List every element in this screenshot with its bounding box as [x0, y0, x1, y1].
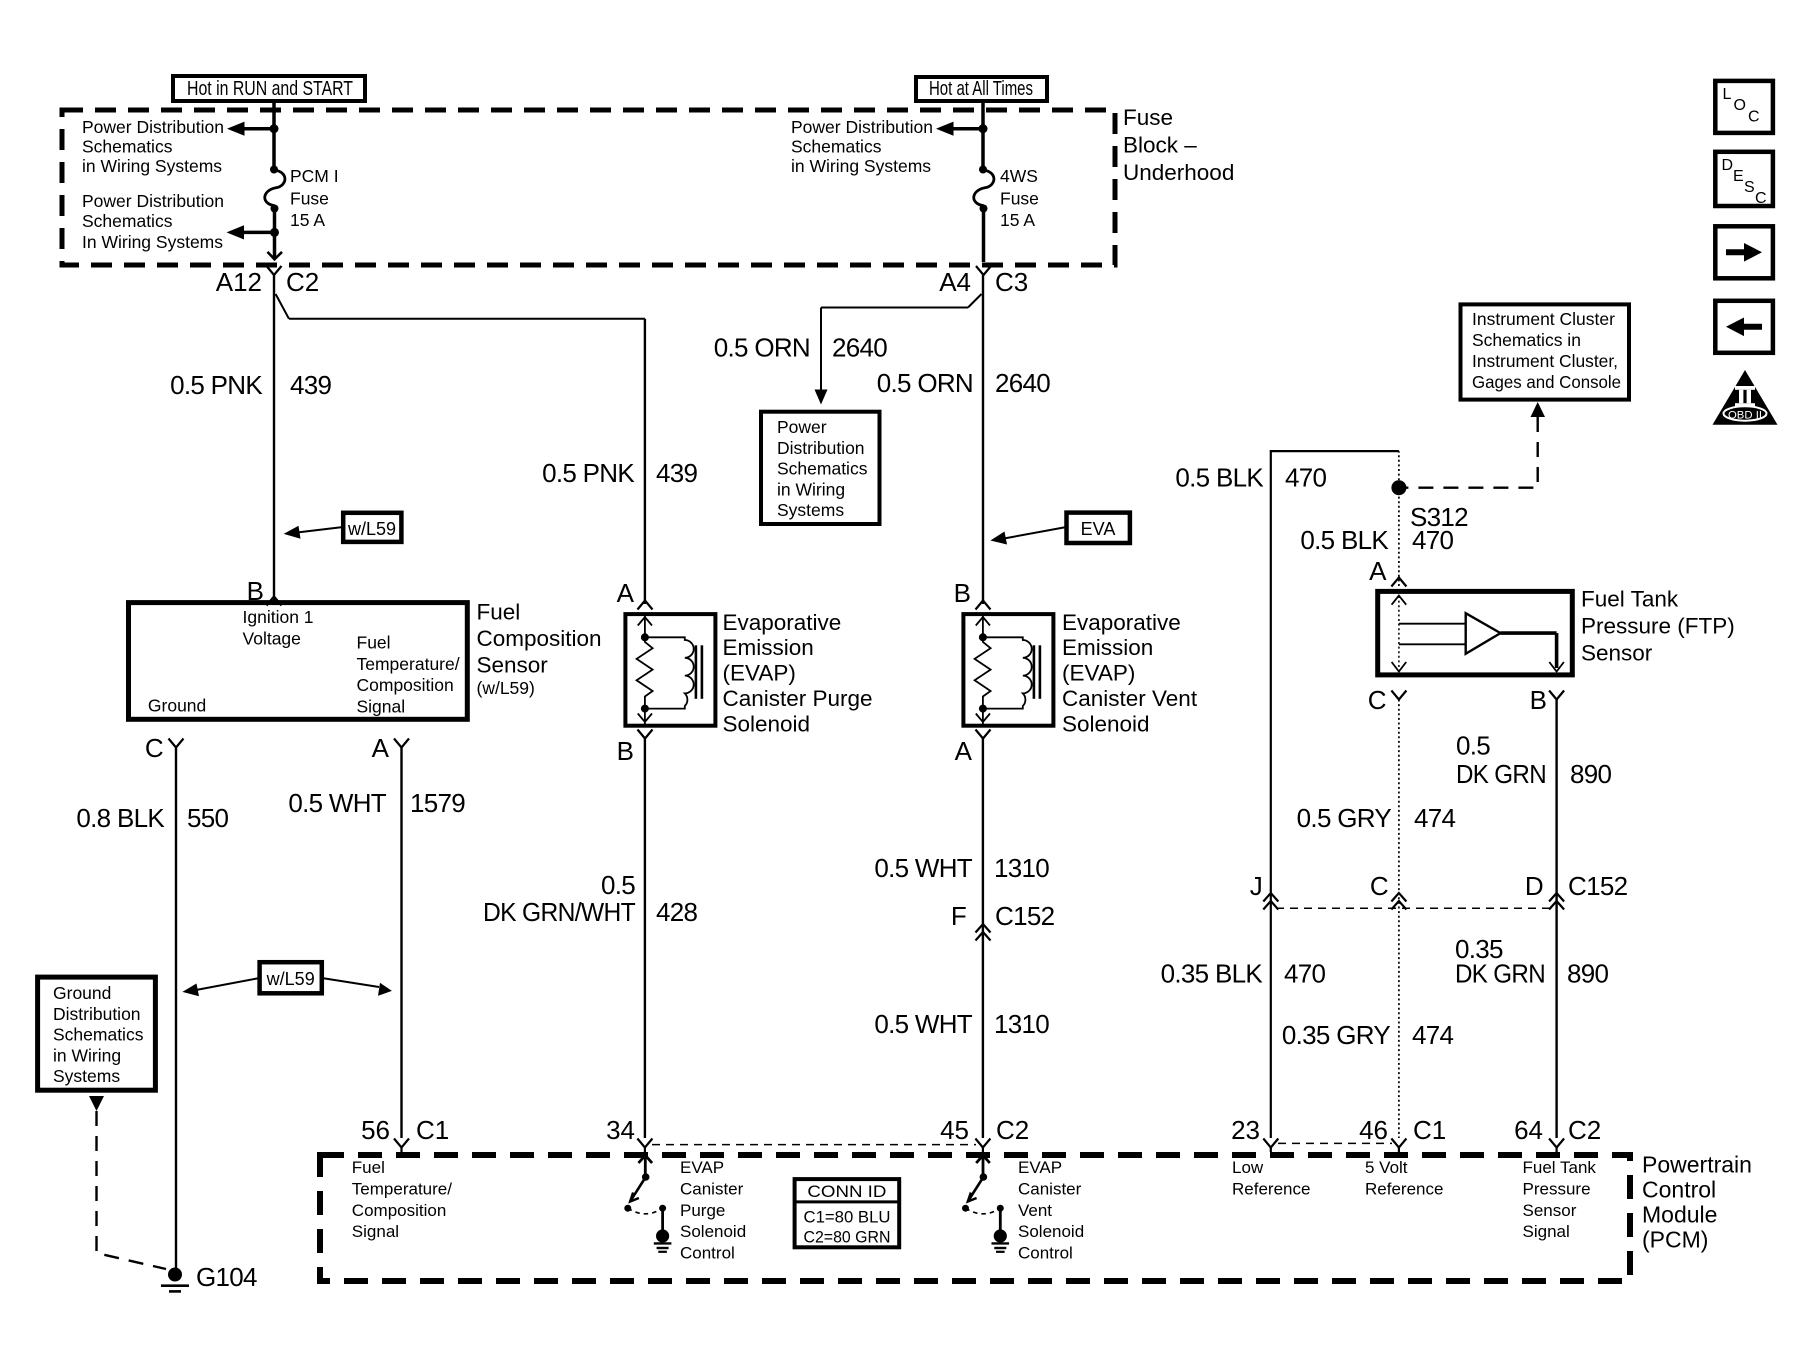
svg-text:EVA: EVA — [1081, 519, 1116, 539]
svg-text:Block –: Block – — [1123, 133, 1197, 158]
connector J C152 — [1250, 871, 1279, 910]
wire corner left to x1271 and down to pin 23 — [1271, 451, 1399, 1138]
svg-text:D: D — [1722, 157, 1734, 174]
svg-text:550: 550 — [187, 803, 229, 833]
label Fuel Temperature/Composition Signal (inside sensor) — [357, 633, 460, 717]
svg-text:0.35 GRY: 0.35 GRY — [1282, 1020, 1390, 1050]
svg-text:64: 64 — [1514, 1115, 1543, 1145]
dashed wire from S312 to instrument cluster arrow — [1403, 417, 1538, 488]
svg-text:0.5 ORN: 0.5 ORN — [877, 368, 973, 398]
label Fuel Composition Sensor (w/L59) — [477, 600, 602, 699]
svg-text:A: A — [617, 578, 635, 608]
label Low Reference — [1232, 1158, 1310, 1198]
svg-text:Control: Control — [1018, 1244, 1073, 1263]
svg-text:B: B — [954, 578, 971, 608]
icon OBD II triangle — [1713, 370, 1778, 425]
svg-text:470: 470 — [1412, 525, 1454, 555]
svg-text:Signal: Signal — [357, 696, 406, 716]
svg-text:46: 46 — [1359, 1115, 1388, 1145]
svg-text:15 A: 15 A — [1000, 210, 1035, 230]
svg-text:C: C — [1755, 190, 1767, 207]
arrow into Power Distribution box — [815, 390, 828, 405]
fuse 4WS 15A — [974, 166, 994, 213]
svg-text:Schematics: Schematics — [53, 1025, 144, 1045]
svg-text:C: C — [1748, 109, 1760, 126]
svg-text:0.5 WHT: 0.5 WHT — [288, 788, 386, 818]
svg-text:C2: C2 — [1568, 1115, 1601, 1145]
dashed link pin23 to pin46 — [1278, 1142, 1392, 1144]
svg-text:Hot in RUN and START: Hot in RUN and START — [187, 78, 353, 100]
svg-text:2640: 2640 — [832, 333, 887, 363]
svg-text:Canister Vent: Canister Vent — [1062, 686, 1198, 711]
svg-text:(PCM): (PCM) — [1642, 1227, 1708, 1253]
wire from Hot at All Times to fuse — [981, 101, 985, 170]
wire FTP A up from box to corner (dotted) — [1398, 451, 1400, 586]
label 0.8 BLK 550 — [76, 803, 228, 833]
svg-text:C1=80 BLU: C1=80 BLU — [804, 1208, 891, 1227]
label 0.5 DK GRN/WHT 428 — [483, 870, 698, 927]
svg-text:C2: C2 — [996, 1115, 1029, 1145]
wire branch vertical down to purge solenoid — [644, 319, 646, 604]
icon LOC box — [1715, 81, 1773, 133]
svg-text:A: A — [372, 733, 390, 763]
wire right main down from A4 — [982, 275, 984, 604]
svg-text:in Wiring Systems: in Wiring Systems — [791, 156, 931, 176]
arrow exiting fuse block bottom left — [268, 252, 283, 259]
svg-text:in Wiring: in Wiring — [777, 479, 845, 499]
svg-text:Canister: Canister — [680, 1179, 744, 1198]
pin C of sensor — [145, 733, 184, 763]
wire fuse to exit (right) — [982, 209, 986, 263]
wire FTP B down to PCM pin 64 — [1555, 700, 1557, 1139]
splice S312 — [1391, 480, 1468, 532]
label Power Distribution Schematics In Wiring Systems (lower left) — [82, 191, 224, 252]
label EVAP Canister Purge Solenoid Control — [680, 1158, 746, 1263]
label Fuel Tank Pressure (FTP) Sensor — [1581, 587, 1735, 666]
svg-text:474: 474 — [1414, 803, 1456, 833]
svg-text:439: 439 — [656, 458, 698, 488]
svg-text:C152: C152 — [995, 901, 1055, 931]
svg-text:in Wiring Systems: in Wiring Systems — [82, 156, 222, 176]
wire FTP C down to PCM pin 46 (dotted) — [1398, 700, 1400, 1139]
svg-text:Sensor: Sensor — [1581, 641, 1653, 666]
svg-text:Fuel Tank: Fuel Tank — [1581, 587, 1679, 612]
svg-text:Schematics: Schematics — [777, 459, 868, 479]
svg-text:Purge: Purge — [680, 1201, 725, 1220]
svg-text:0.5 BLK: 0.5 BLK — [1175, 463, 1264, 493]
svg-text:Canister Purge: Canister Purge — [723, 686, 873, 711]
svg-text:0.8 BLK: 0.8 BLK — [76, 803, 165, 833]
svg-text:Signal: Signal — [1523, 1222, 1570, 1241]
svg-text:A: A — [955, 736, 973, 766]
icon right arrow box — [1715, 226, 1773, 278]
svg-text:Low: Low — [1232, 1158, 1264, 1177]
svg-text:C2: C2 — [286, 267, 319, 297]
svg-text:Ground: Ground — [53, 983, 111, 1003]
svg-text:4WS: 4WS — [1000, 166, 1038, 186]
arrow below ground distribution box — [89, 1096, 104, 1111]
svg-text:Evaporative: Evaporative — [723, 610, 842, 635]
svg-text:DK GRN: DK GRN — [1455, 959, 1545, 989]
label 0.5 ORN 2640 (main) — [877, 368, 1051, 398]
svg-text:890: 890 — [1567, 959, 1609, 989]
svg-text:0.5: 0.5 — [1456, 731, 1490, 761]
svg-text:J: J — [1250, 871, 1262, 901]
svg-text:S: S — [1744, 179, 1755, 196]
svg-text:B: B — [617, 736, 634, 766]
wire vent A down to PCM pin 45 — [982, 739, 984, 1139]
wire A pin down to PCM pin 56 — [400, 748, 402, 1139]
svg-text:C: C — [145, 733, 164, 763]
label 5 Volt Reference — [1365, 1158, 1443, 1198]
pin A of purge solenoid — [617, 578, 653, 610]
svg-text:Sensor: Sensor — [477, 653, 549, 678]
label Power Distribution Schematics in Wiring Systems (upper left) — [82, 117, 224, 176]
svg-text:Power Distribution: Power Distribution — [82, 191, 224, 211]
svg-text:Schematics: Schematics — [82, 137, 173, 157]
svg-text:34: 34 — [606, 1115, 635, 1145]
svg-text:Module: Module — [1642, 1202, 1717, 1228]
svg-text:Power: Power — [777, 417, 827, 437]
node junction dot left lower — [270, 228, 279, 237]
label 4WS Fuse 15 A — [1000, 166, 1039, 230]
svg-text:C2=80 GRN: C2=80 GRN — [804, 1228, 891, 1247]
svg-text:Schematics: Schematics — [791, 137, 882, 157]
svg-text:45: 45 — [940, 1115, 969, 1145]
label 0.5 BLK 470 (x1399) — [1300, 525, 1453, 555]
svg-text:Composition: Composition — [477, 626, 602, 651]
svg-text:A12: A12 — [216, 267, 262, 297]
svg-text:(EVAP): (EVAP) — [1062, 661, 1135, 686]
label 0.5 PNK 439 (left wire) — [170, 370, 331, 400]
label box w/L59 (upper) — [284, 513, 402, 542]
svg-text:F: F — [951, 901, 966, 931]
node junction dot left top — [270, 124, 279, 133]
svg-text:0.35 BLK: 0.35 BLK — [1161, 959, 1264, 989]
pin A of sensor — [372, 733, 409, 763]
svg-text:439: 439 — [290, 370, 332, 400]
wire from Hot in RUN to fuse — [272, 101, 276, 170]
svg-text:Solenoid: Solenoid — [1018, 1222, 1084, 1241]
wire branch diagonal at A12 — [276, 294, 289, 319]
svg-text:Fuel: Fuel — [352, 1158, 385, 1177]
svg-text:Ground: Ground — [148, 696, 206, 716]
wire purge B down to PCM pin 34 — [644, 739, 646, 1139]
svg-text:Evaporative: Evaporative — [1062, 610, 1181, 635]
fuse block box (Fuse Block - Underhood) — [62, 110, 1115, 265]
pin B of fuel composition sensor — [247, 576, 282, 606]
EVAP canister purge solenoid — [625, 614, 715, 726]
label 0.35 GRY 474 — [1282, 1020, 1454, 1050]
svg-text:Composition: Composition — [357, 675, 454, 695]
label box w/L59 (lower, double arrow) — [182, 962, 392, 996]
svg-text:(w/L59): (w/L59) — [477, 678, 535, 698]
svg-text:1579: 1579 — [410, 788, 465, 818]
svg-text:C1: C1 — [1413, 1115, 1446, 1145]
svg-text:Canister: Canister — [1018, 1179, 1082, 1198]
pin 45 C2 — [940, 1115, 1029, 1152]
wire branch diagonal at A4 — [968, 294, 982, 308]
pin B of purge solenoid — [617, 730, 653, 767]
svg-text:Schematics in: Schematics in — [1472, 330, 1581, 350]
svg-text:EVAP: EVAP — [1018, 1158, 1062, 1177]
fuel composition sensor box — [129, 603, 468, 720]
svg-text:23: 23 — [1231, 1115, 1260, 1145]
svg-text:56: 56 — [361, 1115, 390, 1145]
svg-text:Distribution: Distribution — [777, 438, 865, 458]
svg-text:Solenoid: Solenoid — [680, 1222, 746, 1241]
svg-text:Schematics: Schematics — [82, 211, 173, 231]
label 0.5 PNK 439 (branch wire) — [542, 458, 697, 488]
pin 56 C1 — [361, 1115, 449, 1152]
svg-text:Fuel Tank: Fuel Tank — [1523, 1158, 1597, 1177]
label Fuel Tank Pressure Sensor Signal — [1523, 1158, 1597, 1241]
svg-text:DK GRN: DK GRN — [1456, 759, 1546, 789]
icon left arrow box — [1715, 301, 1773, 353]
wire arrow to Power Distribution (right) — [951, 127, 983, 131]
pin 46 C1 — [1359, 1115, 1446, 1152]
svg-text:C: C — [1368, 685, 1387, 715]
label Hot in RUN and START — [173, 76, 365, 101]
svg-text:Vent: Vent — [1018, 1201, 1052, 1220]
wire left main down from A12 — [273, 275, 275, 603]
wire C pin down to G104 — [175, 748, 177, 1272]
label Fuel Temperature/Composition Signal (PCM) — [352, 1158, 452, 1241]
wire branch horizontal to x645 — [289, 318, 645, 320]
box Instrument Cluster Schematics — [1461, 304, 1630, 399]
svg-text:5 Volt: 5 Volt — [1365, 1158, 1408, 1177]
label 0.35 BLK 470 — [1161, 959, 1326, 989]
svg-text:Reference: Reference — [1365, 1179, 1443, 1198]
svg-text:Reference: Reference — [1232, 1179, 1310, 1198]
svg-text:Emission: Emission — [1062, 635, 1153, 660]
svg-text:CONN ID: CONN ID — [807, 1182, 886, 1201]
connector A4 C3 — [939, 266, 1028, 297]
arrow up into instrument cluster box — [1531, 402, 1546, 417]
svg-text:Systems: Systems — [777, 500, 844, 520]
svg-text:0.5 WHT: 0.5 WHT — [874, 1009, 972, 1039]
svg-text:C: C — [1370, 871, 1388, 901]
svg-text:Fuse: Fuse — [1000, 189, 1039, 209]
connector D C152 — [1525, 871, 1628, 910]
svg-text:Ignition 1: Ignition 1 — [243, 607, 314, 627]
label 0.5 DK GRN 890 — [1456, 731, 1612, 790]
label Powertrain Control Module (PCM) — [1642, 1152, 1752, 1253]
icon DESC box — [1715, 152, 1773, 207]
svg-text:Systems: Systems — [53, 1066, 120, 1086]
pin 34 — [606, 1115, 652, 1152]
svg-text:428: 428 — [656, 897, 698, 927]
svg-text:(EVAP): (EVAP) — [723, 661, 796, 686]
svg-text:In Wiring Systems: In Wiring Systems — [82, 232, 223, 252]
svg-text:Hot at All Times: Hot at All Times — [929, 78, 1033, 100]
svg-text:Voltage: Voltage — [243, 628, 301, 648]
label 0.5 WHT 1579 — [288, 788, 465, 818]
transistor driver vent (switch to ground) — [962, 1155, 1009, 1252]
svg-text:Pressure: Pressure — [1523, 1179, 1591, 1198]
label EVAP Canister Vent Solenoid Control — [1018, 1158, 1084, 1263]
svg-text:in Wiring: in Wiring — [53, 1045, 121, 1065]
label 0.35 DK GRN 890 — [1455, 934, 1609, 989]
svg-text:w/L59: w/L59 — [347, 519, 396, 539]
svg-text:Fuse: Fuse — [1123, 105, 1173, 130]
svg-text:1310: 1310 — [994, 1009, 1049, 1039]
svg-text:Control: Control — [1642, 1177, 1716, 1203]
ground G104 — [161, 1262, 257, 1292]
svg-text:Fuel: Fuel — [357, 633, 391, 653]
connector C C152 — [1370, 871, 1406, 910]
pin 23 — [1231, 1115, 1278, 1152]
svg-text:474: 474 — [1412, 1020, 1454, 1050]
dashed wire from ground distribution box to G104 — [97, 1111, 167, 1269]
svg-text:E: E — [1733, 168, 1744, 185]
label Evaporative Emission (EVAP) Canister Vent Solenoid — [1062, 610, 1198, 737]
dashed line C152 connector row — [1276, 907, 1551, 909]
connector F C152 — [951, 901, 1055, 941]
label PCM I Fuse 15 A — [290, 166, 339, 230]
label Evaporative Emission (EVAP) Canister Purge Solenoid — [723, 610, 873, 737]
label Power Distribution Schematics in Wiring Systems (right) — [791, 117, 933, 176]
svg-text:Solenoid: Solenoid — [723, 711, 811, 736]
svg-text:Sensor: Sensor — [1523, 1201, 1577, 1220]
svg-text:15 A: 15 A — [290, 210, 325, 230]
transistor driver purge (switch to ground) — [624, 1155, 671, 1252]
svg-text:0.5 WHT: 0.5 WHT — [874, 853, 972, 883]
svg-text:Powertrain: Powertrain — [1642, 1152, 1752, 1178]
box Ground Distribution Schematics in Wiring Systems — [38, 977, 156, 1090]
wire arrow to Power Distribution (left upper) — [242, 127, 274, 131]
svg-text:A: A — [1369, 556, 1387, 586]
svg-text:Instrument Cluster: Instrument Cluster — [1472, 309, 1615, 329]
fuse PCM I 15A — [265, 166, 285, 213]
wire fuse to exit — [273, 209, 277, 259]
svg-text:Signal: Signal — [352, 1222, 399, 1241]
label box EVA — [990, 513, 1130, 545]
svg-text:B: B — [1530, 685, 1547, 715]
svg-text:PCM I: PCM I — [290, 166, 339, 186]
svg-text:w/L59: w/L59 — [266, 969, 315, 989]
dashed link pin34 to pin45 — [652, 1144, 976, 1146]
label Ignition 1 Voltage — [243, 607, 314, 648]
svg-text:Control: Control — [680, 1244, 735, 1263]
svg-text:C3: C3 — [995, 267, 1028, 297]
svg-text:DK GRN/WHT: DK GRN/WHT — [483, 897, 636, 927]
connector A12 C2 — [216, 266, 320, 297]
pin B of vent solenoid — [954, 578, 991, 610]
svg-text:Pressure (FTP): Pressure (FTP) — [1581, 614, 1735, 639]
svg-text:0.5: 0.5 — [601, 870, 635, 900]
svg-text:Fuel: Fuel — [477, 600, 521, 625]
wire branch vertical down to arrow — [820, 308, 822, 391]
svg-text:C1: C1 — [416, 1115, 449, 1145]
svg-text:Distribution: Distribution — [53, 1004, 141, 1024]
svg-text:EVAP: EVAP — [680, 1158, 724, 1177]
svg-text:0.5 PNK: 0.5 PNK — [170, 370, 263, 400]
svg-text:Underhood: Underhood — [1123, 160, 1234, 185]
label 0.5 WHT 1310 (upper) — [874, 853, 1049, 883]
wire arrow to Power Distribution (left lower) — [242, 231, 275, 235]
svg-text:Power Distribution: Power Distribution — [82, 117, 224, 137]
svg-text:Temperature/: Temperature/ — [352, 1179, 452, 1198]
svg-text:A4: A4 — [939, 267, 971, 297]
CONN ID table — [795, 1179, 900, 1247]
label 0.5 ORN 2640 (branch) — [714, 333, 888, 363]
svg-text:0.5 PNK: 0.5 PNK — [542, 458, 635, 488]
svg-text:L: L — [1723, 86, 1732, 103]
svg-text:D: D — [1525, 871, 1543, 901]
svg-text:G104: G104 — [196, 1262, 257, 1292]
svg-text:Fuse: Fuse — [290, 189, 329, 209]
svg-text:1310: 1310 — [994, 853, 1049, 883]
EVAP canister vent solenoid — [963, 614, 1053, 726]
PCM box (Powertrain Control Module) — [320, 1155, 1630, 1281]
svg-text:Composition: Composition — [352, 1201, 447, 1220]
svg-text:Power Distribution: Power Distribution — [791, 117, 933, 137]
svg-text:Emission: Emission — [723, 635, 814, 660]
box Power Distribution Schematics in Wiring Systems — [761, 412, 880, 524]
label 0.5 BLK 470 (x1271) — [1175, 463, 1326, 493]
svg-text:890: 890 — [1570, 759, 1612, 789]
fuel tank pressure FTP sensor box — [1378, 591, 1573, 675]
svg-text:OBD II: OBD II — [1728, 410, 1762, 422]
svg-text:0.5 BLK: 0.5 BLK — [1300, 525, 1389, 555]
svg-text:Temperature/: Temperature/ — [357, 654, 460, 674]
label 0.5 WHT 1310 (lower) — [874, 1009, 1049, 1039]
wire branch horizontal to x821 — [821, 307, 968, 309]
label Hot at All Times — [916, 77, 1047, 101]
svg-text:470: 470 — [1285, 463, 1327, 493]
pin A of FTP sensor — [1369, 556, 1406, 587]
pin C of FTP sensor — [1368, 685, 1407, 715]
pin B of FTP sensor — [1530, 685, 1564, 715]
label Fuse Block - Underhood — [1123, 105, 1234, 185]
svg-text:Instrument Cluster,: Instrument Cluster, — [1472, 351, 1618, 371]
svg-text:O: O — [1734, 97, 1746, 114]
pin 64 C2 — [1514, 1115, 1601, 1152]
node junction dot right — [979, 124, 988, 133]
svg-text:470: 470 — [1284, 959, 1326, 989]
svg-text:2640: 2640 — [995, 368, 1050, 398]
label 0.5 GRY 474 — [1297, 803, 1456, 833]
svg-text:Gages and Console: Gages and Console — [1472, 372, 1621, 392]
svg-text:0.5 ORN: 0.5 ORN — [714, 333, 810, 363]
svg-text:0.5 GRY: 0.5 GRY — [1297, 803, 1392, 833]
pin A of vent solenoid — [955, 730, 991, 767]
svg-text:C152: C152 — [1568, 871, 1628, 901]
svg-text:Solenoid: Solenoid — [1062, 711, 1150, 736]
